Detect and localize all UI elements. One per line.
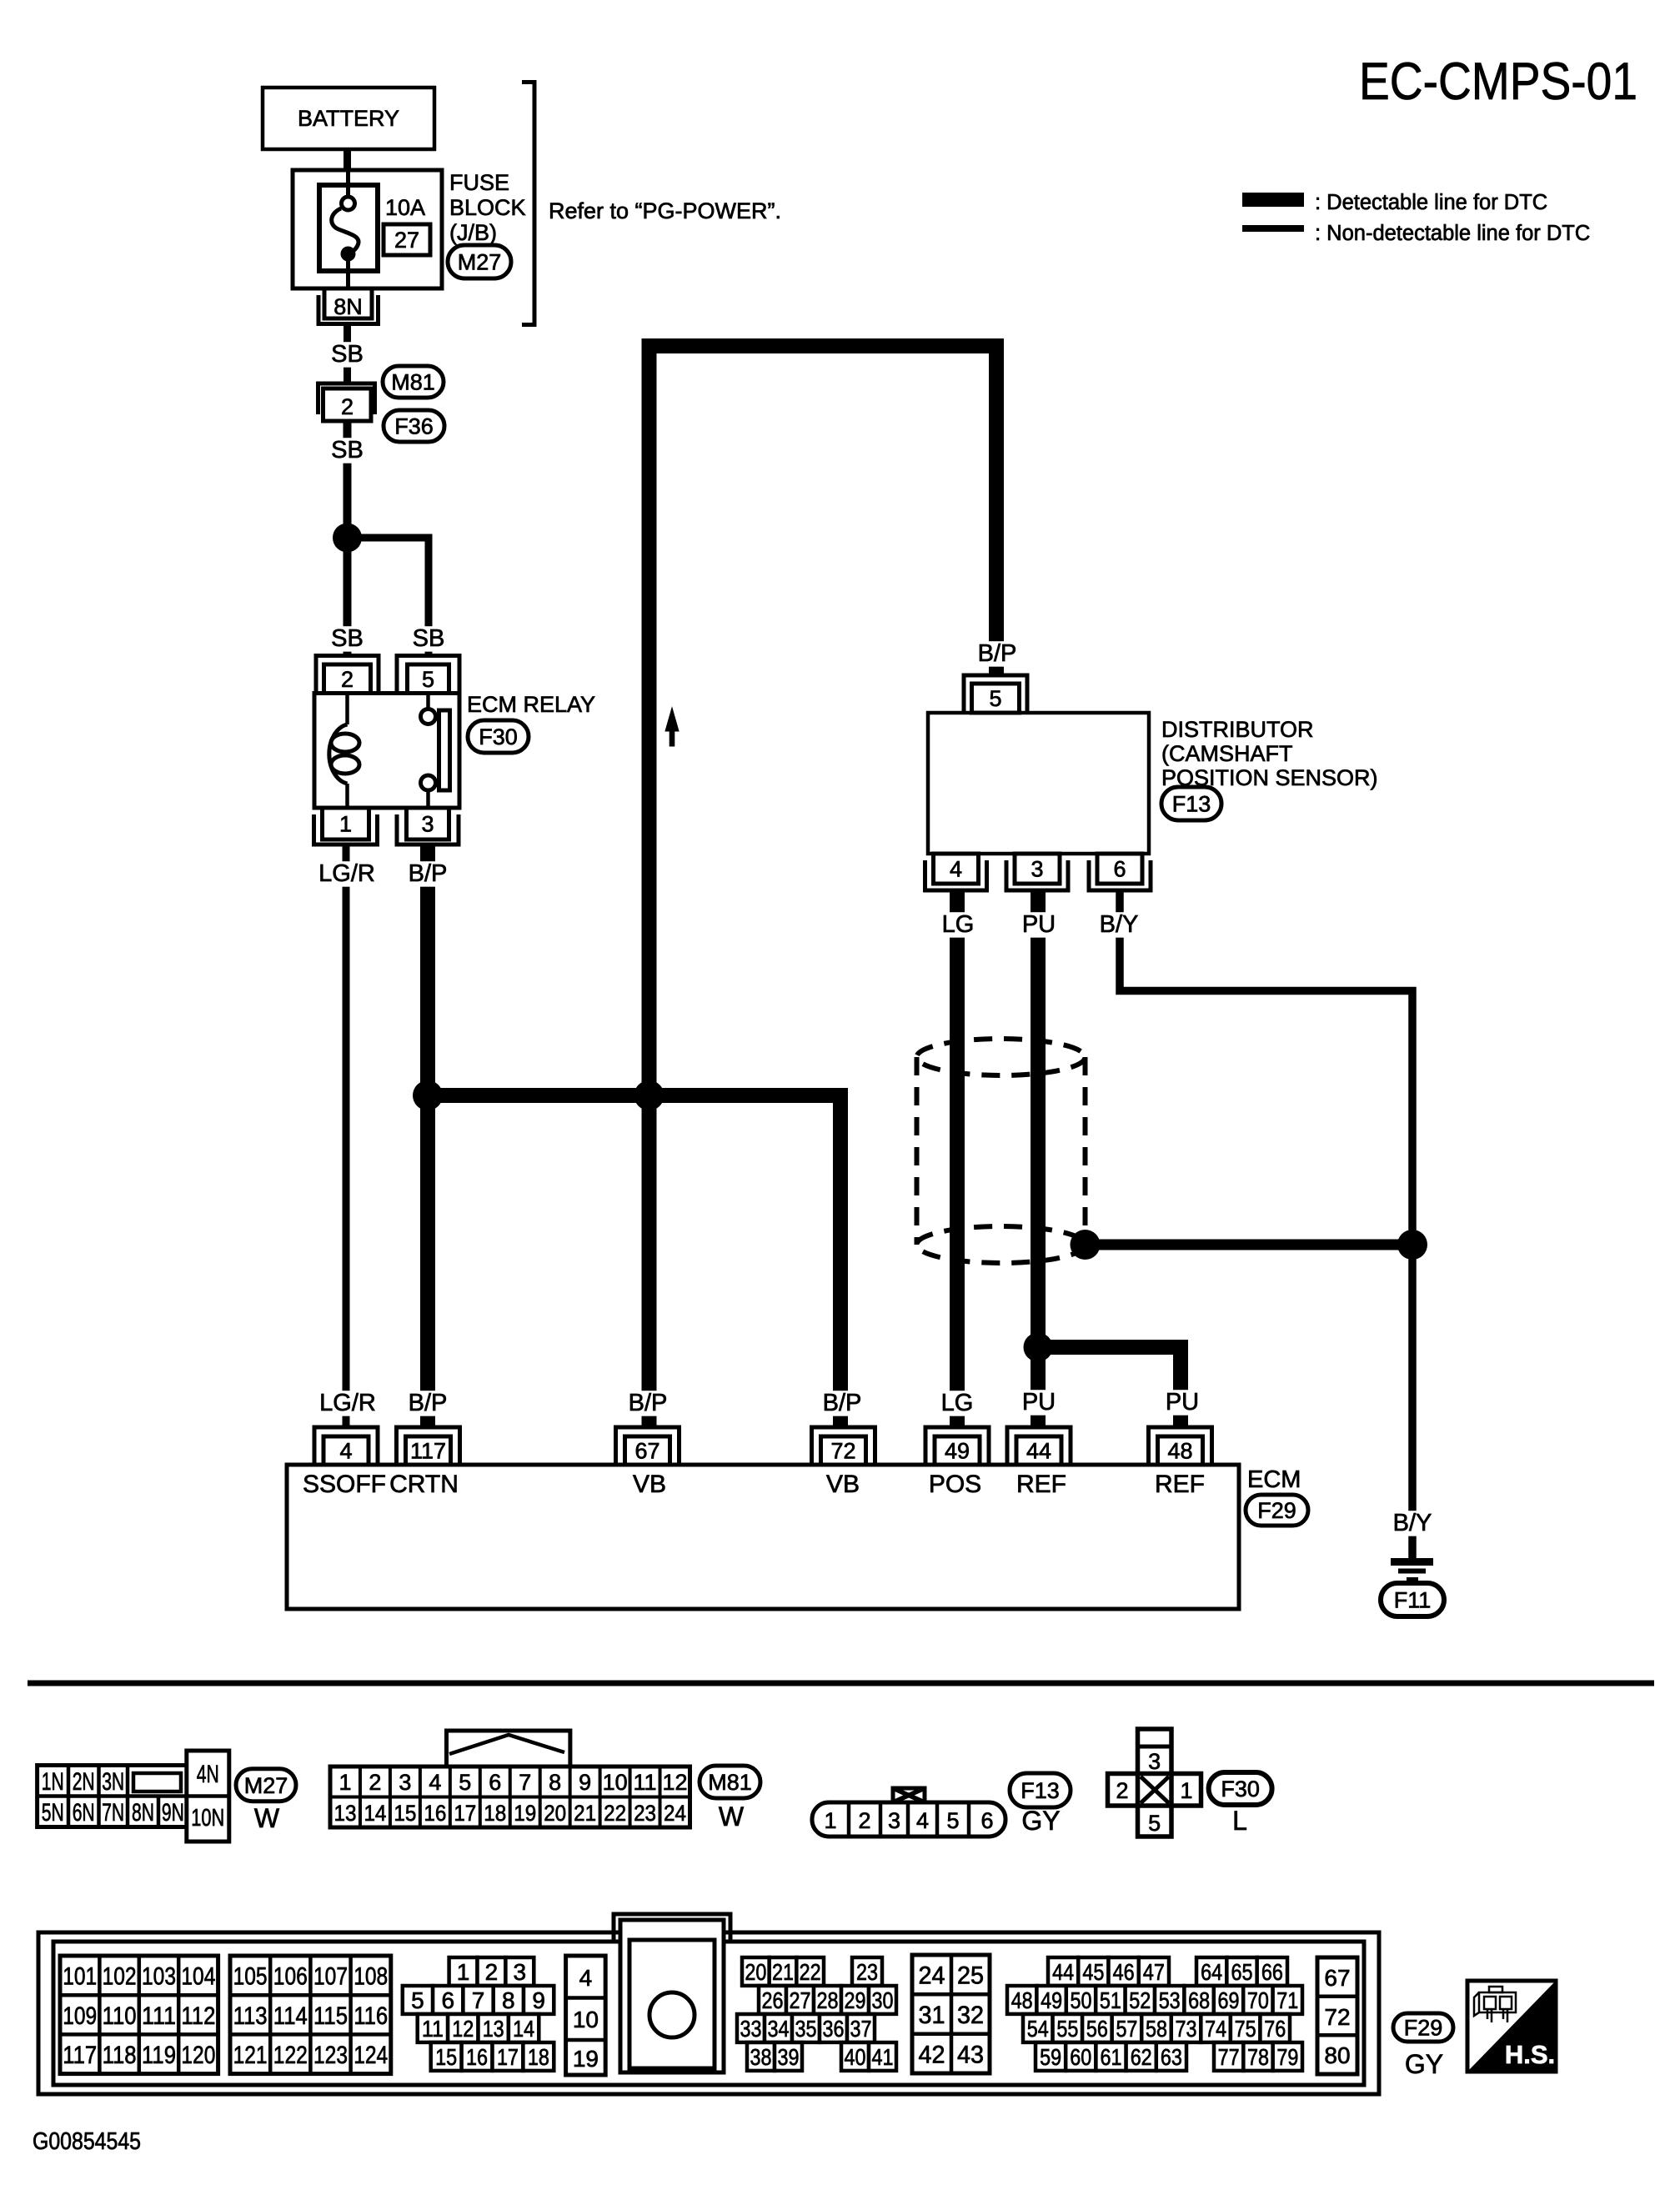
svg-text:12: 12 xyxy=(662,1770,687,1795)
connector ref F29 oval xyxy=(1246,1495,1308,1526)
ECM connector panel outer frame xyxy=(38,1932,1379,2094)
svg-text:18: 18 xyxy=(484,1801,506,1826)
svg-text:80: 80 xyxy=(1324,2042,1350,2068)
svg-text:114: 114 xyxy=(273,2002,308,2030)
main B/P right vertical down to distributor pin 5 xyxy=(989,346,1004,676)
svg-text:M81: M81 xyxy=(708,1770,752,1795)
svg-text:3: 3 xyxy=(399,1770,411,1795)
svg-text:50: 50 xyxy=(1071,1987,1092,2013)
connector face M81 clip xyxy=(447,1731,570,1767)
main B/P top horizontal xyxy=(642,338,1005,353)
svg-text:8N: 8N xyxy=(132,1799,154,1827)
svg-text:70: 70 xyxy=(1247,1987,1269,2013)
wire label B/P at ECM pin 72 xyxy=(817,1391,867,1416)
svg-text:3: 3 xyxy=(1031,857,1043,882)
connector face F13 clip xyxy=(893,1788,925,1802)
connector ref M27 oval xyxy=(448,245,511,278)
svg-text:F29: F29 xyxy=(1257,1498,1296,1523)
svg-text:8N: 8N xyxy=(333,294,363,319)
svg-text:55: 55 xyxy=(1056,2016,1078,2042)
F29 grid 105-124 xyxy=(230,1956,391,2074)
connector face M81 grid xyxy=(330,1767,690,1827)
fuse number 27 box xyxy=(384,224,430,255)
svg-text:4: 4 xyxy=(579,1965,593,1991)
junction dot on PU xyxy=(1024,1333,1053,1362)
svg-text:123: 123 xyxy=(313,2042,348,2069)
ECM connector pin 72 xyxy=(812,1427,875,1465)
F29 pins 11-14 xyxy=(418,2014,539,2042)
svg-text:107: 107 xyxy=(313,1963,348,1991)
connector ref M81 oval xyxy=(383,366,444,398)
shield cylinder (dashed) xyxy=(917,1039,1086,1263)
shield ground wire to B/Y line xyxy=(1086,1240,1413,1250)
svg-text:SSOFF: SSOFF xyxy=(303,1471,386,1498)
F29 pins 26-30 xyxy=(759,1986,896,2014)
svg-text:7: 7 xyxy=(519,1770,531,1795)
svg-text:11: 11 xyxy=(634,1770,657,1795)
svg-text:52: 52 xyxy=(1129,1987,1151,2013)
junction dot xyxy=(333,524,362,553)
svg-text:SB: SB xyxy=(331,625,364,652)
svg-text:5N: 5N xyxy=(42,1799,64,1827)
wire label SB xyxy=(330,626,365,651)
relay connector pin 1 xyxy=(314,808,378,844)
distributor connector pin 4 xyxy=(925,854,987,890)
svg-text:M81: M81 xyxy=(391,370,435,395)
B/P horizontal link to ECM pin 72 xyxy=(428,1095,840,1427)
svg-text:43: 43 xyxy=(957,2041,984,2068)
F29 pins 54-76 xyxy=(1023,2014,1290,2042)
svg-text:24: 24 xyxy=(919,1962,945,1990)
F29 center key box xyxy=(614,1914,730,2072)
svg-text:33: 33 xyxy=(740,2016,762,2042)
svg-text:105: 105 xyxy=(233,1963,268,1991)
svg-text:66: 66 xyxy=(1261,1959,1283,1985)
ECM connector pin 117 xyxy=(397,1427,460,1465)
svg-text:106: 106 xyxy=(273,1963,308,1991)
F29 pins 15-18 xyxy=(431,2042,554,2071)
svg-text:1: 1 xyxy=(457,1959,470,1985)
svg-text:LG/R: LG/R xyxy=(319,1390,376,1416)
fuse block outer box xyxy=(293,170,442,288)
svg-text:G00854545: G00854545 xyxy=(33,2128,141,2155)
svg-text:73: 73 xyxy=(1176,2016,1197,2042)
svg-text:60: 60 xyxy=(1070,2044,1091,2070)
svg-text:6: 6 xyxy=(489,1770,501,1795)
relay coil xyxy=(329,694,359,809)
F29 pins 1-3 xyxy=(449,1957,534,1986)
svg-text:B/P: B/P xyxy=(409,860,448,887)
wire label PU at ECM pin 48 xyxy=(1165,1390,1200,1415)
svg-text:61: 61 xyxy=(1101,2044,1122,2070)
svg-text:F29: F29 xyxy=(1404,2016,1443,2041)
connector ref F11 oval xyxy=(1381,1583,1444,1616)
F29 pins 40-41 xyxy=(841,2042,896,2071)
svg-text:3: 3 xyxy=(514,1959,527,1985)
svg-text:67: 67 xyxy=(1324,1965,1350,1991)
shield ground junction dot at cylinder xyxy=(1071,1230,1101,1260)
F29 block 24/25/31/32/42/43 xyxy=(912,1955,990,2073)
F29 pins 59-63 xyxy=(1036,2042,1186,2071)
F29 grid 101-120 xyxy=(60,1956,218,2074)
svg-text:F11: F11 xyxy=(1394,1588,1432,1613)
svg-text:79: 79 xyxy=(1276,2044,1298,2070)
svg-text:1: 1 xyxy=(824,1808,836,1833)
svg-text:REF: REF xyxy=(1016,1471,1066,1498)
svg-text:7N: 7N xyxy=(102,1799,124,1827)
wire label B/P xyxy=(403,861,453,886)
svg-text:34: 34 xyxy=(768,2016,790,2042)
svg-text:72: 72 xyxy=(1324,2004,1350,2030)
svg-text:PU: PU xyxy=(1166,1389,1199,1416)
svg-text:4: 4 xyxy=(429,1770,441,1795)
svg-text:38: 38 xyxy=(750,2044,772,2070)
svg-text:REF: REF xyxy=(1155,1471,1205,1498)
svg-text:64: 64 xyxy=(1201,1959,1222,1985)
svg-text:L: L xyxy=(1232,1806,1247,1836)
svg-text:4: 4 xyxy=(916,1808,929,1833)
svg-text:5: 5 xyxy=(989,686,1001,711)
svg-text:113: 113 xyxy=(233,2002,268,2030)
F29 pin 23 xyxy=(852,1957,882,1986)
svg-text:16: 16 xyxy=(424,1801,446,1826)
connector ref M27 oval xyxy=(236,1769,296,1802)
wire label B/Y near ground xyxy=(1387,1511,1437,1536)
relay connector pin 2 xyxy=(316,656,379,694)
svg-text:EC-CMPS-01: EC-CMPS-01 xyxy=(1359,53,1637,111)
distributor connector pin 5 xyxy=(964,675,1027,713)
distributor box F13 xyxy=(928,713,1149,854)
wire 8N to connector 2 (SB) xyxy=(344,326,351,383)
svg-text:PU: PU xyxy=(1022,911,1056,938)
svg-text:POS: POS xyxy=(929,1471,981,1498)
svg-text:LG: LG xyxy=(942,911,975,938)
distributor label xyxy=(1161,717,1378,790)
svg-text:115: 115 xyxy=(313,2002,348,2030)
F29 column 67/72/80 xyxy=(1317,1957,1357,2074)
svg-text:65: 65 xyxy=(1231,1959,1253,1985)
svg-text:1: 1 xyxy=(339,812,352,837)
svg-text:B/Y: B/Y xyxy=(1393,1510,1432,1536)
svg-text:B/Y: B/Y xyxy=(1100,911,1139,938)
F29 pins 38-39 xyxy=(747,2042,802,2071)
svg-text:46: 46 xyxy=(1113,1959,1135,1985)
wire connector 2 to junction (SB) xyxy=(344,421,352,538)
svg-text:122: 122 xyxy=(273,2042,308,2069)
ECM connector pin 44 xyxy=(1007,1427,1071,1465)
connector ref F30 oval xyxy=(1209,1772,1272,1805)
svg-text:3: 3 xyxy=(1148,1749,1161,1774)
svg-text:VB: VB xyxy=(826,1471,860,1498)
svg-text:48: 48 xyxy=(1011,1987,1033,2013)
svg-text:42: 42 xyxy=(919,2041,945,2068)
relay connector pin 3 xyxy=(397,808,459,844)
F29 pins 48-71 xyxy=(1007,1986,1302,2014)
svg-text:62: 62 xyxy=(1131,2044,1152,2070)
connector ref M81 oval xyxy=(700,1766,760,1798)
svg-text:B/P: B/P xyxy=(978,640,1017,667)
svg-text:14: 14 xyxy=(513,2016,534,2042)
svg-text:10: 10 xyxy=(573,2007,599,2032)
wire label B/P at ECM pin 67 xyxy=(623,1391,673,1416)
svg-text:45: 45 xyxy=(1082,1959,1104,1985)
wire junction down to relay pin 2 (SB) xyxy=(344,538,352,655)
wire label LG xyxy=(940,912,975,937)
svg-text:W: W xyxy=(254,1803,280,1833)
svg-text:27: 27 xyxy=(790,1987,811,2013)
svg-text:59: 59 xyxy=(1040,2044,1061,2070)
svg-text:44: 44 xyxy=(1052,1959,1074,1985)
svg-text:1: 1 xyxy=(339,1770,351,1795)
svg-text:22: 22 xyxy=(800,1959,821,1985)
svg-text:ECM: ECM xyxy=(1247,1466,1301,1493)
svg-text:44: 44 xyxy=(1026,1439,1051,1464)
svg-text:F30: F30 xyxy=(1221,1777,1260,1802)
separator line xyxy=(28,1681,1654,1686)
svg-text:2: 2 xyxy=(1116,1778,1128,1803)
svg-text:22: 22 xyxy=(604,1801,626,1826)
svg-text:15: 15 xyxy=(435,2044,457,2070)
svg-text:116: 116 xyxy=(354,2002,388,2030)
svg-text:6: 6 xyxy=(1113,857,1126,882)
svg-text:8: 8 xyxy=(549,1770,561,1795)
wire relay pin3 to ECM pin117 (B/P, detectable) xyxy=(420,844,435,1427)
svg-text:117: 117 xyxy=(410,1439,446,1464)
svg-text:14: 14 xyxy=(364,1801,386,1826)
svg-text:27: 27 xyxy=(394,228,419,253)
ECM connector pin 67 xyxy=(616,1427,680,1465)
svg-text:54: 54 xyxy=(1027,2016,1049,2042)
connector 8N xyxy=(318,288,379,324)
svg-text:: Non-detectable line for DTC: : Non-detectable line for DTC xyxy=(1315,222,1590,245)
wire label SB xyxy=(330,438,365,463)
F29 column 4/10/19 xyxy=(566,1956,606,2075)
svg-text:108: 108 xyxy=(354,1963,388,1991)
svg-text:110: 110 xyxy=(103,2002,137,2030)
svg-text:SB: SB xyxy=(331,341,364,368)
connector face F13 pill xyxy=(812,1802,1005,1837)
svg-text:LG/R: LG/R xyxy=(318,860,375,887)
wire label B/P at ECM xyxy=(403,1391,453,1416)
F29 pins 20-22 xyxy=(742,1957,824,1986)
svg-text:120: 120 xyxy=(181,2042,215,2069)
svg-text:47: 47 xyxy=(1143,1959,1165,1985)
svg-text:F13: F13 xyxy=(1021,1778,1060,1803)
svg-text:1N: 1N xyxy=(42,1768,64,1796)
wire distributor pin6 B/Y down and right xyxy=(1120,890,1412,1561)
svg-text:118: 118 xyxy=(103,2042,137,2069)
svg-text:B/P: B/P xyxy=(409,1390,448,1416)
relay switch contact xyxy=(421,694,450,809)
PU branch to ECM pin 48 xyxy=(1038,1347,1181,1427)
svg-text:18: 18 xyxy=(528,2044,549,2070)
ECM connector pin 4 xyxy=(314,1427,378,1465)
svg-text:BATTERY: BATTERY xyxy=(298,106,399,131)
ECM connector pin 49 xyxy=(925,1427,989,1465)
svg-text:5: 5 xyxy=(1148,1811,1161,1836)
fuse inner box xyxy=(319,185,378,271)
wire relay pin1 to ECM pin4 (LG/R, non-detectable) xyxy=(343,844,350,1427)
svg-text:71: 71 xyxy=(1276,1987,1298,2013)
svg-text:74: 74 xyxy=(1205,2016,1226,2042)
svg-text:111: 111 xyxy=(142,2002,176,2030)
svg-text:10A: 10A xyxy=(385,195,425,220)
svg-text:75: 75 xyxy=(1235,2016,1256,2042)
svg-text:21: 21 xyxy=(574,1801,596,1826)
svg-text:9: 9 xyxy=(532,1987,545,2013)
svg-text:10N: 10N xyxy=(191,1805,224,1832)
svg-text:F30: F30 xyxy=(479,724,518,749)
svg-text:GY: GY xyxy=(1405,2049,1443,2079)
svg-text:31: 31 xyxy=(919,2002,945,2029)
junction dot on B/Y line xyxy=(1397,1230,1427,1260)
svg-text:56: 56 xyxy=(1086,2016,1108,2042)
svg-text:H.S.: H.S. xyxy=(1505,2040,1555,2069)
connector ref F13 oval xyxy=(1010,1773,1071,1807)
connector 2 (M81/F36) xyxy=(318,383,375,421)
ECM box F29 xyxy=(287,1465,1239,1609)
distributor connector pin 3 xyxy=(1006,854,1068,890)
svg-text:6: 6 xyxy=(441,1987,454,2013)
svg-text:2: 2 xyxy=(485,1959,499,1985)
junction dot on B/P at relay column xyxy=(413,1080,443,1110)
svg-text:76: 76 xyxy=(1264,2016,1286,2042)
wire distributor pin3 to ECM pin44 (PU) xyxy=(1031,890,1046,1427)
battery xyxy=(263,88,434,149)
svg-text:2: 2 xyxy=(341,394,354,419)
connector ref F13 oval xyxy=(1161,787,1221,820)
svg-text:117: 117 xyxy=(63,2042,97,2069)
svg-text:8: 8 xyxy=(502,1987,515,2013)
wire label PU at ECM xyxy=(1021,1390,1056,1415)
svg-text:20: 20 xyxy=(745,1959,766,1985)
svg-text:1: 1 xyxy=(1180,1778,1192,1803)
svg-text:20: 20 xyxy=(544,1801,566,1826)
svg-text:112: 112 xyxy=(181,2002,215,2030)
svg-text:119: 119 xyxy=(142,2042,176,2069)
svg-text:3: 3 xyxy=(888,1808,900,1833)
svg-text:67: 67 xyxy=(634,1439,659,1464)
svg-text:16: 16 xyxy=(466,2044,488,2070)
svg-text:28: 28 xyxy=(817,1987,839,2013)
svg-text:51: 51 xyxy=(1100,1987,1121,2013)
svg-text:69: 69 xyxy=(1218,1987,1240,2013)
svg-text:2: 2 xyxy=(341,667,354,692)
svg-text:68: 68 xyxy=(1188,1987,1210,2013)
svg-text:7: 7 xyxy=(472,1987,485,2013)
svg-text:17: 17 xyxy=(497,2044,519,2070)
bracket for PG-POWER reference xyxy=(522,83,534,325)
H.S. logo xyxy=(1467,1981,1556,2072)
wire label LG/R xyxy=(314,861,379,886)
svg-text:37: 37 xyxy=(850,2016,872,2042)
svg-text:49: 49 xyxy=(945,1439,970,1464)
main B/P power line: vertical to ECM pin 67 xyxy=(642,338,657,1427)
svg-text:23: 23 xyxy=(634,1801,656,1826)
svg-text:109: 109 xyxy=(63,2002,97,2030)
fuse block label xyxy=(449,170,526,245)
relay connector pin 5 xyxy=(397,656,459,694)
svg-text:35: 35 xyxy=(795,2016,817,2042)
svg-text:5: 5 xyxy=(411,1987,424,2013)
svg-text:49: 49 xyxy=(1041,1987,1062,2013)
svg-text:23: 23 xyxy=(856,1959,878,1985)
wire battery to fuse block xyxy=(344,149,351,172)
svg-text:13: 13 xyxy=(333,1801,356,1826)
svg-text:Refer to “PG-POWER”.: Refer to “PG-POWER”. xyxy=(549,198,781,223)
svg-text:11: 11 xyxy=(422,2016,444,2042)
wire label PU xyxy=(1021,912,1056,937)
svg-text:101: 101 xyxy=(63,1963,97,1991)
svg-text:9N: 9N xyxy=(162,1799,184,1827)
svg-text:36: 36 xyxy=(823,2016,845,2042)
svg-text:17: 17 xyxy=(454,1801,476,1826)
wire label SB xyxy=(411,626,446,651)
svg-text:2: 2 xyxy=(369,1770,381,1795)
wire branch junction to relay pin 5 (SB) xyxy=(348,538,429,655)
svg-text:30: 30 xyxy=(872,1987,894,2013)
svg-text:B/P: B/P xyxy=(629,1390,668,1416)
connector ref F29 oval xyxy=(1393,2013,1453,2042)
connector ref F36 oval xyxy=(384,410,444,442)
svg-text:58: 58 xyxy=(1146,2016,1167,2042)
svg-text:41: 41 xyxy=(872,2044,894,2070)
svg-text:M27: M27 xyxy=(244,1773,288,1798)
F29 pins 33-37 xyxy=(737,2014,875,2042)
ECM relay box F30 xyxy=(314,694,459,809)
svg-text:104: 104 xyxy=(181,1963,215,1991)
wire label SB xyxy=(330,342,365,367)
svg-text:SB: SB xyxy=(331,437,364,464)
svg-text:25: 25 xyxy=(957,1962,984,1990)
wire label B/P above distributor pin 5 xyxy=(972,641,1022,666)
legend: non-detectable line sample xyxy=(1242,225,1304,232)
svg-text:B/P: B/P xyxy=(823,1390,862,1416)
svg-text:9: 9 xyxy=(579,1770,591,1795)
svg-text:29: 29 xyxy=(845,1987,866,2013)
svg-text:SB: SB xyxy=(413,625,445,652)
F29 pins 5-9 xyxy=(403,1986,554,2014)
fuse symbol xyxy=(332,172,359,288)
svg-text:32: 32 xyxy=(957,2002,984,2029)
svg-text:121: 121 xyxy=(233,2042,268,2069)
svg-text:3: 3 xyxy=(421,812,434,837)
svg-text:10: 10 xyxy=(603,1770,628,1795)
legend: detectable line sample xyxy=(1242,193,1304,207)
distributor connector pin 6 xyxy=(1089,854,1151,890)
ECM connector panel inner frame xyxy=(53,1942,1364,2085)
F29 pins 77-79 xyxy=(1214,2042,1302,2071)
wire distributor pin4 to ECM pin49 (LG) xyxy=(950,890,965,1427)
svg-text:LG: LG xyxy=(941,1390,974,1416)
wire label LG at ECM xyxy=(940,1391,975,1416)
svg-text:5: 5 xyxy=(422,667,434,692)
svg-text:77: 77 xyxy=(1218,2044,1240,2070)
svg-text:DISTRIBUTOR: DISTRIBUTOR xyxy=(1161,717,1314,742)
wire label B/Y xyxy=(1094,912,1144,937)
svg-text:: Detectable line for DTC: : Detectable line for DTC xyxy=(1315,191,1547,214)
svg-text:GY: GY xyxy=(1021,1806,1060,1836)
svg-text:3N: 3N xyxy=(102,1768,124,1796)
svg-text:6N: 6N xyxy=(73,1799,95,1827)
svg-text:12: 12 xyxy=(452,2016,474,2042)
svg-text:M27: M27 xyxy=(458,250,502,275)
current-flow arrow xyxy=(665,708,679,746)
svg-text:21: 21 xyxy=(772,1959,794,1985)
svg-text:103: 103 xyxy=(142,1963,176,1991)
svg-text:BLOCK: BLOCK xyxy=(449,195,526,220)
svg-text:19: 19 xyxy=(573,2046,599,2072)
